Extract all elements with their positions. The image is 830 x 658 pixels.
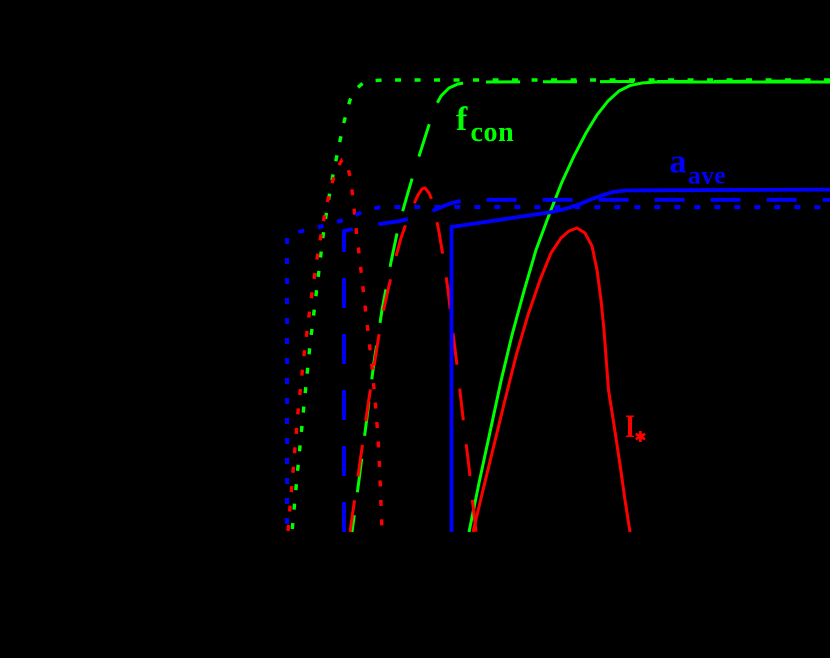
svg-text:con: con xyxy=(471,117,515,148)
svg-text:ave: ave xyxy=(688,161,726,190)
svg-text:a: a xyxy=(670,144,687,181)
svg-text:I: I xyxy=(625,409,635,445)
svg-text:f: f xyxy=(456,101,468,138)
